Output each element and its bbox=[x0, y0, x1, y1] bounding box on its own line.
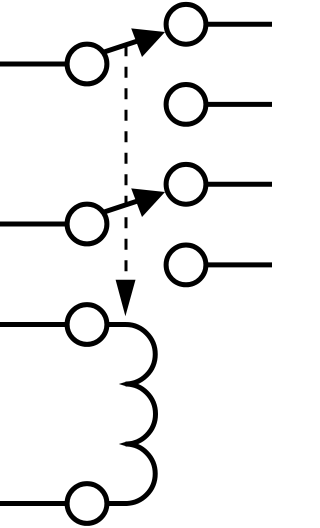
wire: switch 1 pole lead (left edge to pole contact) bbox=[0, 62, 88, 67]
switch 1 lower throw contact circle bbox=[166, 85, 206, 125]
wire: coil top lead (left edge through terminal to coil) bbox=[0, 322, 126, 327]
switch 2 lever (movable contact) bbox=[103, 197, 150, 212]
wire: coil bottom lead (left edge through terminal to coil) bbox=[0, 501, 126, 506]
wire: switch 2 pole lead (left edge to pole contact) bbox=[0, 222, 88, 227]
switch 1 pole contact circle bbox=[67, 44, 107, 84]
switch 1 lever arrowhead bbox=[131, 28, 165, 57]
wire: switch 1 upper throw lead (contact to right edge) bbox=[186, 22, 272, 27]
mechanical linkage (dashed actuation line) bbox=[125, 45, 128, 279]
switch 2 lower throw contact circle bbox=[166, 245, 206, 285]
coil bottom terminal circle bbox=[67, 484, 107, 524]
switch 1 lever (movable contact) bbox=[103, 37, 150, 52]
switch 2 pole contact circle bbox=[67, 204, 107, 244]
switch 2 lever arrowhead bbox=[131, 188, 165, 217]
mechanical linkage arrowhead (points to coil) bbox=[116, 280, 136, 317]
switch 2 upper throw contact circle bbox=[166, 164, 206, 204]
coil top terminal circle bbox=[67, 305, 107, 345]
wire: switch 1 lower throw lead (contact to right edge) bbox=[186, 102, 272, 107]
wire: switch 2 upper throw lead (contact to right edge) bbox=[186, 182, 272, 187]
switch 1 upper throw contact circle bbox=[166, 4, 206, 44]
coil (relay coil, three right-bulging loops) bbox=[126, 325, 156, 504]
coil cusp spike (upper loop junction) bbox=[119, 382, 127, 387]
wire: switch 2 lower throw lead (contact to right edge) bbox=[186, 262, 272, 267]
coil cusp spike (lower loop junction) bbox=[119, 442, 127, 447]
